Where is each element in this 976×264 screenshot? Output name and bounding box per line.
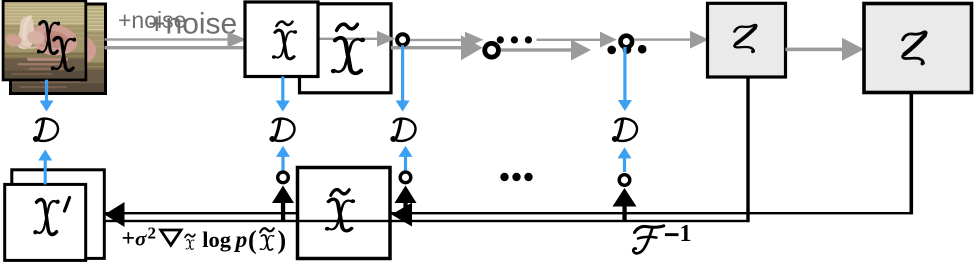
thin arrow from circle A1 to circle B1 (410, 32, 484, 48)
svg-text:+noise: +noise (148, 8, 237, 41)
F^-1 label (633, 221, 691, 253)
tap 2 (under D3) (395, 146, 417, 222)
thin arrow into z box A (634, 31, 709, 49)
svg-text:(: ( (248, 226, 257, 255)
svg-text:1: 1 (680, 221, 692, 247)
circle A1 (397, 34, 408, 45)
photo box x (front copy) (3, 1, 86, 80)
thick arrow between z boxes (786, 38, 865, 61)
thin noise arrow (105, 32, 247, 48)
svg-text:log: log (202, 227, 232, 252)
blue arrow from x' box up to D1 (38, 150, 52, 185)
arrowhead into x' (105, 202, 125, 227)
label z B (903, 32, 926, 65)
svg-text:+: + (122, 226, 136, 252)
x' box (back copy) (12, 170, 105, 259)
decoder label D1 (34, 119, 58, 141)
ellipsis dots (bottom row) (500, 173, 532, 181)
hidden middle dot B (623, 45, 632, 54)
thin arrow into circle 1 (over back box) (318, 31, 395, 47)
z box B vertical (910, 93, 914, 215)
x-tilde box (back copy) (300, 4, 392, 93)
label x (back) (51, 38, 76, 71)
svg-text:2: 2 (148, 224, 157, 243)
label x-tilde (back) (331, 24, 365, 73)
photo box x (back copy) (11, 4, 106, 94)
tap 3 (under D4) (613, 147, 637, 221)
tap 1 (under D2) (272, 146, 294, 222)
z box A (708, 3, 786, 77)
decoder label D2 (271, 119, 295, 141)
decoder label D3 (392, 119, 416, 141)
svg-text:p: p (234, 227, 248, 253)
svg-text:): ) (278, 226, 287, 255)
svg-text:σ: σ (135, 227, 147, 251)
x' box (front copy) (5, 184, 86, 260)
decoder label D4 (613, 119, 637, 141)
script F (633, 226, 664, 254)
lower return rail (over box) (105, 220, 748, 222)
label z A (734, 25, 756, 53)
label x-tilde bottom (325, 190, 355, 231)
label x (front) (37, 22, 60, 54)
thick arrow toward dots B (501, 40, 591, 61)
blue arrow from photo box to D1 (40, 80, 54, 112)
thick arrow into circle B1 (391, 35, 483, 60)
blue arrow from circle A2 to D4 (618, 47, 632, 111)
circle B1 (485, 43, 499, 57)
ellipsis dots flanking circle A2 (thick chain) (607, 45, 646, 54)
blue arrow from circle A1 to D3 (396, 45, 410, 111)
x-tilde box (front copy) (245, 2, 318, 77)
formula +sigma^2 grad log p (122, 224, 287, 255)
thick noise arrow (head hidden by front x-tilde box) (105, 35, 302, 60)
circle A2 (621, 36, 633, 48)
blue arrow from x-tilde box to D2 (276, 77, 290, 112)
ellipsis dots (top thin chain) (497, 36, 532, 43)
label x-tilde (front) (272, 22, 297, 59)
arrowhead into bottom x-tilde (392, 203, 413, 227)
z box A vertical (746, 77, 749, 222)
upper return rail (105, 212, 912, 214)
z box B (864, 4, 972, 93)
thin arrow toward circle A2 (537, 32, 617, 48)
bottom x-tilde box (298, 168, 391, 259)
label x' (33, 198, 69, 235)
